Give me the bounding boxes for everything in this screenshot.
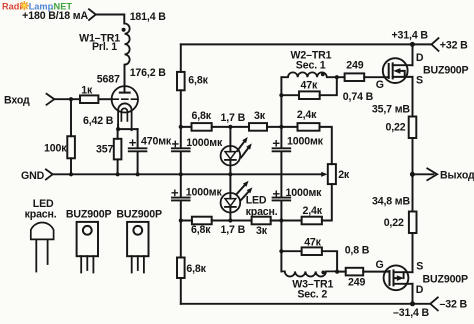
node row1-right column [279,125,283,129]
node GND-470uF [136,172,140,176]
inductor W1-TR1 Prl.1 (primary winding) [79,24,130,65]
terminal +32V [432,38,469,52]
node row1-left column [179,125,183,129]
wire 6,8k to bottom rail [180,278,182,304]
node right column-47k top [279,93,283,97]
wire 1k to grid [98,98,112,100]
svg-text:GND: GND [21,170,45,182]
node row1-LED1 [228,125,232,129]
TO-220 package 1 BUZ900P [66,209,112,273]
svg-text:BUZ900P: BUZ900P [423,274,469,286]
LED2 light arrow 2 [239,186,254,202]
wire to Q2 source [412,233,414,272]
terminal -32V [430,297,467,310]
label LED красн. [246,194,278,218]
resistor R 6,8k lower-left vertical [177,258,207,279]
svg-text:0,74 В: 0,74 В [343,91,374,103]
svg-text:357: 357 [96,143,113,155]
node input junction [69,97,73,101]
resistor R 6,8k row1 [192,110,212,131]
terminal +180V supply [22,9,96,22]
svg-text:5687: 5687 [97,73,120,85]
wire input node down to 100k [70,99,72,136]
svg-text:470мк: 470мк [141,135,172,147]
terminal Vhod (input) [4,94,54,107]
svg-text:D: D [416,284,424,296]
svg-text:S: S [416,74,423,86]
phasing dot W1 [122,28,126,32]
capacitor C 1000uF upper-right [273,136,324,152]
svg-text:47к: 47к [301,80,318,92]
phasing dot W3 [321,271,325,275]
capacitor C 470uF cathode bypass [129,135,172,151]
resistor R 47k top gate damping [281,77,336,99]
inductor W3-TR1 Sec.2 [281,271,337,300]
wire from +180V terminal to W1 primary [96,15,125,24]
tube grid (dashed) [112,98,137,100]
potentiometer R 2k balance [328,164,350,184]
wire cap to GND rail [180,152,182,196]
wire row3 down to lower 6,8k [180,221,182,258]
node cathode junction [116,127,120,131]
LED2 light arrow 1 [235,179,250,195]
tube cathode arch [118,103,132,130]
svg-text:1000мк: 1000мк [287,136,324,148]
wire Q1 source down [412,77,414,117]
svg-text:0,8 В: 0,8 В [345,244,370,256]
wire cap through GND rail [280,152,282,196]
resistor R 2,4k row3 [302,205,323,224]
svg-text:BUZ900P: BUZ900P [66,209,112,221]
capacitor C 1000uF lower-right [273,187,323,201]
svg-text:1,7 В: 1,7 В [221,112,246,124]
wire Q1 drain [412,44,414,65]
MOSFET Q2 BUZ900P lower [384,265,413,290]
wire 6,8k to row1 and cap [180,90,182,147]
inductor W2-TR1 Sec.1 [281,50,336,78]
MOSFET Q1 BUZ900P upper [383,58,413,83]
svg-text:2,4к: 2,4к [297,109,317,121]
svg-text:181,4 В: 181,4 В [130,11,167,23]
svg-text:3к: 3к [256,225,268,237]
terminal output arrow [414,168,474,181]
resistor R 357 cathode [96,139,121,160]
svg-text:1,7 В: 1,7 В [221,224,246,236]
wire source resistor to output node [412,138,414,212]
wire 100k to GND rail [70,158,72,174]
resistor R 2,4k row1 [297,109,320,131]
svg-text:Sec. 2: Sec. 2 [297,288,327,300]
row1 wire [181,127,332,164]
capacitor C 1000uF upper-left [172,137,223,151]
svg-text:1000мк: 1000мк [186,137,223,149]
node output [410,172,415,177]
tube heater arch [121,108,127,120]
resistor R 6,8k row3 [191,217,212,236]
svg-text:Выход: Выход [440,170,474,182]
svg-text:35,7 мВ: 35,7 мВ [372,104,410,116]
wire to 470uF cap top [137,129,139,147]
LED package pictorial [25,198,57,272]
GND mid rail [53,173,322,175]
svg-text:6,8к: 6,8к [192,110,212,122]
bottom rail wire [181,303,430,305]
wire cathode to junction [118,125,138,129]
resistor R 0,22 bottom source [384,212,417,234]
resistor R 1k grid stopper [80,85,98,103]
node GND-left column [179,172,183,176]
LED2 red bias diode [221,174,241,220]
svg-text:BUZ900P: BUZ900P [116,209,162,221]
node GND-LED column [228,172,232,176]
resistor R 3k row1 [249,110,267,131]
tube anode plate bar [120,92,130,94]
svg-text:–31,4 В: –31,4 В [393,307,430,319]
node +31,4V rail [410,42,415,47]
svg-text:249: 249 [348,277,365,289]
tube V1 5687 envelope [112,86,138,112]
wire 470uF to GND rail [137,152,139,174]
svg-text:176,2 В: 176,2 В [130,67,167,79]
capacitor C 1000uF lower-left [172,186,222,200]
top rail wire (left corner to +32V) [181,43,432,45]
wire input to grid resistor [54,98,80,100]
wire left column top [180,44,182,72]
node -31,4V rail [410,301,415,306]
svg-text:.NET: .NET [51,2,72,12]
svg-text:2,4к: 2,4к [303,205,323,217]
resistor R 47k bottom gate damping [281,237,337,272]
resistor R 249 bottom gate stopper [337,268,389,289]
svg-text:47к: 47к [304,237,321,249]
resistor R 249 top gate stopper [337,60,389,81]
wire cap to row3 [180,201,182,220]
wire Q2 drain to bottom rail [412,284,414,304]
svg-text:2к: 2к [338,169,350,181]
logo RadioLamp.NET [2,2,72,12]
svg-text:1000мк: 1000мк [186,186,223,198]
node GND-357 [116,172,120,176]
node W3-47k junction [335,270,339,274]
resistor R 6,8k upper-left vertical [177,72,209,90]
terminal GND [21,169,53,182]
wire cap to row3 and W3 [280,201,282,271]
svg-text:0,22: 0,22 [386,122,406,134]
node row3-right column [279,218,283,222]
svg-text:1к: 1к [81,85,93,97]
wire cathode junction down to 357 [117,129,119,139]
svg-text:+32 В: +32 В [440,40,468,52]
svg-text:6,8к: 6,8к [191,224,211,236]
svg-text:Вход: Вход [4,95,30,107]
svg-text:красн.: красн. [25,209,57,221]
svg-text:6,8к: 6,8к [186,263,206,275]
svg-text:249: 249 [346,60,363,72]
resistor R 100k input load [44,136,75,158]
svg-text:G: G [376,79,384,91]
svg-text:G: G [376,259,384,271]
row3 wire [181,184,332,220]
svg-text:34,8 мВ: 34,8 мВ [372,195,410,207]
right column wire [280,77,282,147]
svg-text:Sec. 1: Sec. 1 [296,59,326,71]
svg-text:+31,4 В: +31,4 В [392,30,429,42]
node row3-left column [179,218,183,222]
node row3-LED2 [228,218,232,222]
svg-text:–32 В: –32 В [440,299,468,311]
svg-text:3к: 3к [254,110,266,122]
svg-text:BUZ900P: BUZ900P [423,64,469,76]
svg-text:6,42 В: 6,42 В [83,115,114,127]
node right column-47k bottom [279,249,283,253]
node W2-47k junction [335,75,339,79]
svg-text:D: D [416,52,424,64]
phasing dot W2 [321,73,325,77]
resistor R 0,22 top source [386,117,417,139]
svg-text:Radi: Radi [2,2,22,12]
LED1 light arrow 2 [239,142,253,159]
TO-220 package 2 BUZ900P [116,209,162,273]
svg-text:100к: 100к [44,143,67,155]
wiper arrow into 2k pot [321,172,327,177]
LED1 red bias diode [221,127,241,174]
svg-text:1000мк: 1000мк [286,187,323,199]
svg-text:+180 В/18 мА: +180 В/18 мА [22,10,88,22]
svg-text:S: S [416,261,423,273]
svg-text:6,8к: 6,8к [188,74,208,86]
LED1 light arrow 1 [235,136,249,153]
wire W1 bottom to tube anode [124,65,126,93]
svg-text:Lamp: Lamp [29,2,54,12]
svg-text:Prl. 1: Prl. 1 [92,41,117,53]
svg-text:LED: LED [246,194,267,206]
resistor R 3k row3 [252,217,271,237]
svg-text:0,22: 0,22 [384,217,404,229]
wire 357 to GND rail [117,159,119,174]
node GND-100k [69,172,73,176]
